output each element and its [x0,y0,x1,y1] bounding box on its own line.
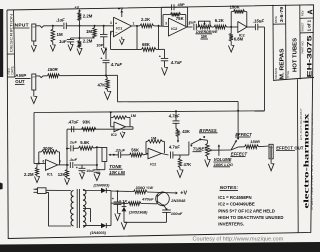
svg-text:DRAWN: DRAWN [274,68,278,78]
potentiometer VOLUME 100K LOG [206,143,210,156]
courtesy text [193,237,284,243]
svg-text:M. REPAS: M. REPAS [280,48,286,79]
svg-text:EFFECT OUT: EFFECT OUT [276,145,304,150]
label 47K second [184,162,192,167]
resistor R11 150K feedback [231,10,247,27]
resistor R21 150R output [245,145,259,149]
resistor R24 47K to ground [177,155,183,178]
label 6.8M [234,36,244,41]
wire bias line [71,37,95,39]
wire IC2d out [161,154,168,156]
svg-text:PINS 5+7 OF IC2 ARE HELD: PINS 5+7 OF IC2 ARE HELD [218,209,275,214]
svg-text:EFFECT: EFFECT [231,152,248,157]
resistor R4 1M bias [93,25,97,38]
title block title value HOT TUBES [293,38,299,72]
wire riser into IC2c [110,111,114,127]
label INPUT [13,23,30,29]
resistor R1 1M input pulldown [51,26,55,45]
label NOTES heading [220,185,239,191]
title block DATE label [274,16,278,23]
label 150R output [250,139,260,144]
resistor R5 2.2K [140,24,154,28]
svg-text:EFFECT: EFFECT [235,132,252,137]
svg-text:1M: 1M [86,29,92,34]
note line pins [218,209,275,214]
label 1M bias [86,29,92,34]
svg-text:OUT: OUT [15,79,25,84]
title block date box divider [273,23,286,25]
note line high [218,215,283,220]
svg-text:4.7uF: 4.7uF [170,60,182,65]
title block SHEET label [300,22,304,32]
wire IC1a output [132,25,141,27]
svg-text:electro-harmonix: electro-harmonix [303,113,311,209]
diode D2 1N4003 [101,223,111,228]
label IC2 third [111,133,117,137]
capacitor C12 tone to ground [94,170,101,181]
copyright small vertical text [301,107,303,140]
svg-text:(1N5236B): (1N5236B) [129,211,148,215]
diode D1 1N4003 [101,188,111,193]
switch S2 effect arm [231,138,239,151]
title block sheet value 1 of 1 [306,19,311,31]
svg-text:3: 3 [110,21,112,25]
wire plug to transformer bottom [46,193,71,226]
svg-text:BYPASS: BYPASS [199,128,216,133]
title block bottom line [273,77,314,80]
IC1a +V lead [120,10,123,17]
svg-text:DATE: DATE [274,16,278,23]
label EFFECT lower [230,152,247,157]
svg-text:HOT TUBES: HOT TUBES [293,38,299,72]
wire secondary bottom [83,225,101,227]
transformer T1 secondary [83,190,86,228]
label 68K [142,42,151,47]
transformer T1 core [77,189,79,228]
svg-text:+: + [115,22,117,26]
label VOLUME [213,157,231,162]
label EFFECT upper [235,132,252,137]
wire plug to transformer top [46,189,71,191]
svg-text:470uF: 470uF [141,196,154,201]
note line IC2 [218,202,255,207]
svg-text:Courtesy of http://www.muzique: Courtesy of http://www.muzique.com [193,237,284,243]
scan edge black mark left lower [0,183,3,190]
label IC2 inside [171,27,177,31]
ground below amp out jack [31,90,37,104]
diode D3 zener 1N5236B [122,203,127,222]
svg-text:1M: 1M [151,135,157,140]
svg-text:1M: 1M [57,32,63,37]
op-amp IC1a [114,17,132,37]
svg-text:2.2M: 2.2M [83,38,93,43]
scan edge black strip left [0,9,3,77]
title block drawn value M. REPAS [280,48,286,79]
wire to tone pot [97,146,102,148]
svg-text:2N3548: 2N3548 [170,198,186,203]
capacitor C10 .1uF series [67,162,97,168]
label IC1 inside [116,26,122,30]
label 1N5236B [129,211,148,215]
inverter IC2a [169,18,188,36]
svg-text:2.2M: 2.2M [24,172,34,177]
op-amp IC1b [46,160,58,171]
resistor R9 6.2K [212,25,238,29]
ground below effect out jack [268,159,274,171]
title block TITLE label [286,71,290,79]
ground below IC2c [120,132,125,138]
node bias dot [79,25,81,27]
capacitor C3 10P [100,25,108,54]
svg-text:+V: +V [180,190,187,196]
svg-text:(1N4003): (1N4003) [94,184,111,188]
svg-text:1M: 1M [201,34,207,39]
label 12K [58,172,66,177]
svg-text:TITLE: TITLE [286,71,290,79]
capacitor C18 4.7uF on 68K node [159,49,169,75]
wire IC2a out [187,26,193,28]
wire switch to 150R [231,147,245,150]
title block part value EH-3075 [307,34,313,77]
label 1M [57,32,63,37]
svg-text:12K: 12K [58,172,66,177]
svg-text:56K: 56K [131,148,139,153]
revision table DESCRIPTION label [9,13,13,52]
svg-text:A: A [308,9,315,14]
label BYPASS [199,128,218,133]
node input dot [52,25,54,27]
svg-text:.47uF: .47uF [68,119,79,124]
pin 1 label [133,21,135,25]
svg-text:150K: 150K [230,5,241,10]
capacitor C2 1uF bypass [67,38,74,51]
svg-text:EH-3075 REPRINT: EH-3075 REPRINT [301,107,303,140]
label 4.7uF first [110,62,123,67]
resistor R15 2.2M to ground [35,164,40,183]
switch contact arrow 43K [177,140,179,142]
svg-text:4.7uF: 4.7uF [168,144,180,149]
potentiometer TONE 10K LIN [102,148,107,162]
svg-text:7: 7 [59,160,61,164]
svg-text:47K: 47K [184,162,192,167]
label .15uF [253,19,265,24]
label .47uF [68,119,79,124]
svg-text:3-6-79: 3-6-79 [279,6,285,22]
svg-text:IC2: IC2 [239,33,245,37]
resistor R16 5.6K [73,146,97,150]
svg-text:1: 1 [133,21,135,25]
title block date value 3-6-79 [279,6,285,22]
note line IC1 [218,195,251,200]
capacitor C16 470uF filter [112,190,122,220]
wire to overdrive pot [196,26,198,28]
svg-text:2.2M: 2.2M [83,13,93,18]
resistor R17 12K to ground [65,165,70,185]
svg-text:6.2K: 6.2K [215,18,225,23]
resistor R7 150R [48,74,60,78]
label 4.7uF second [170,60,182,65]
wire long riser right [264,27,266,111]
resistor R22 330R half watt [134,190,148,194]
capacitor C7 .15uF series [255,24,264,30]
inverter IC2c [114,122,126,132]
label 93K [83,119,92,124]
svg-text:93K: 93K [83,119,92,124]
wire contact to volume [200,139,207,143]
label 4.7uF third [168,144,180,149]
label 4.7uF fourth [168,114,180,119]
wire pin2 feedback riser [111,31,142,49]
ground below input jack [31,41,36,52]
potentiometer OVERDRIVE 1M [199,21,212,29]
label IC1 second [47,173,53,177]
resistor R18 56K [130,153,149,157]
capacitor C5 45P label [178,2,185,7]
transformer T1 primary [71,191,74,227]
label +V at R2 [75,6,80,10]
svg-text:4.7uF: 4.7uF [110,62,123,67]
capacitor C9 1uF series [67,139,77,151]
wire emitter to C17 [164,206,167,210]
label 2.2K [141,17,151,22]
svg-text:300K: 300K [43,146,54,151]
resistor R3 2.2M to ground [77,26,82,55]
title block column lines [273,5,300,80]
label 47K [98,82,107,87]
svg-text:27 WEST 23RD STREET NEW YORK,: 27 WEST 23RD STREET NEW YORK, N.Y. 10010… [312,112,314,210]
title block rev value A [308,9,315,14]
label 5.6K [80,140,90,145]
AC plug [34,188,47,194]
wire rectifier junction [110,191,112,226]
resistor R14 300K feedback [39,150,60,165]
revision table REV DATE labels [7,66,14,74]
svg-text:1uF: 1uF [59,39,67,44]
svg-text:IC1 = RC4558PN: IC1 = RC4558PN [218,195,251,200]
wire riser to H1 [117,75,119,102]
svg-text:1 of 1: 1 of 1 [306,19,311,31]
wire H2 tap to 43K chain [175,110,177,121]
ground below volume [205,157,211,167]
wire input jack to node [36,26,63,28]
wire H2 [34,111,265,113]
wire corner riser to IC1b [33,113,35,164]
resistor R13 93K [82,127,97,131]
wire 2.2K node riser [136,26,138,49]
node tone top dot [96,146,98,148]
svg-text:OVERDRIVE: OVERDRIVE [196,30,218,34]
pin labels IC1b [43,159,62,164]
svg-text:2.2K: 2.2K [141,17,151,22]
volume wiper [209,149,231,151]
wire IC2c out [126,127,134,129]
svg-text:INVERTERS.: INVERTERS. [218,222,244,227]
label 10K LIN [109,170,126,175]
label EFFECT OUT [276,145,304,150]
tone pot wiper [108,154,115,156]
label 2.2M top [83,13,93,18]
node N3 dot [230,26,232,28]
capacitor C11 10uF electrolytic [76,165,96,179]
revision table column line [7,10,15,77]
electro-harmonix logotype [303,113,311,209]
svg-text:3: 3 [165,21,167,25]
label 6.2K [215,18,225,23]
resistor R6 68K feedback [142,26,159,52]
svg-text:.15uF: .15uF [253,19,265,24]
wire 150R to riser [60,75,118,77]
label 1M overdrive [201,34,209,39]
wire dc rail [111,190,134,193]
resistor R19 1M feedback [146,140,164,154]
note line inverters [218,222,244,227]
node bias line dot [79,37,81,39]
label 150K [230,5,241,10]
wire row2 [111,202,117,204]
svg-text:5.6K: 5.6K [80,140,90,145]
transistor Q1 2N3548 [156,192,170,206]
capacitor C13 .22uF series [118,152,129,158]
label 1uF [59,39,67,44]
label 1M IC2d [151,135,157,140]
resistor R8 47K to ground [104,76,111,100]
svg-text:.1uF: .1uF [56,17,65,22]
resistor R12 1M feedback box [111,116,130,127]
svg-text:IC1: IC1 [47,173,53,177]
svg-text:HIGH TO DEACTIVATE UNUSED: HIGH TO DEACTIVATE UNUSED [218,215,283,220]
label .22uF [115,148,126,153]
wire to effect out jack [259,145,270,148]
wire H1 [118,100,239,102]
svg-text:68K: 68K [142,42,151,47]
label 75K [176,16,185,21]
svg-text:EH-3075: EH-3075 [307,34,313,77]
ground below IC1a [120,37,125,45]
capacitor C14 4.7uF series [171,152,189,159]
wire IC2b out [247,26,255,28]
label IC2 second [239,33,245,37]
svg-text:AMP: AMP [15,73,26,78]
svg-text:IC2 = CD4049UBE: IC2 = CD4049UBE [218,202,255,207]
svg-text:PART NO.: PART NO. [300,40,304,53]
resistor R23 1.1K [117,202,157,206]
wire IC1b out [58,164,68,166]
resistor R10 6.8M to ground [228,27,234,52]
svg-text:75K: 75K [176,16,185,21]
label 470uF [141,196,154,201]
svg-text:DESCRIPTION: DESCRIPTION [9,13,13,52]
svg-text:IC2: IC2 [150,163,156,167]
svg-text:IC1: IC1 [116,26,122,30]
volume adjust arrow [218,144,220,156]
svg-text:IC2: IC2 [111,133,117,137]
title block DRAWN label [274,68,278,78]
label 43K [182,129,190,134]
svg-text:1M: 1M [131,114,136,118]
label TUBES [193,147,208,152]
ground below R1 [50,45,55,51]
svg-text:.1uF: .1uF [69,157,78,162]
capacitor C1 .1uF series [64,23,114,30]
op-amp plus minus [115,22,117,35]
label 300K [43,146,54,151]
capacitor C6 1uF series [189,20,197,31]
svg-text:10P: 10P [96,42,103,47]
wire jack to 150R [36,76,48,78]
switch riser to H lines [237,110,239,139]
wire into IC1b [34,163,46,165]
svg-text:150R: 150R [250,139,260,144]
title block REV label [300,10,304,16]
label 2.2M bottom [83,38,93,43]
svg-text:SHEET: SHEET [300,22,304,32]
svg-text:150R: 150R [48,67,59,72]
svg-text:10K LIN: 10K LIN [109,170,126,175]
svg-text:.22uF: .22uF [115,148,126,153]
label 100uF [171,211,183,216]
title block sheet dividers [300,18,314,33]
scan edge black strip bottom [0,242,320,252]
pin 3 IC2a [165,21,167,25]
label 1.1K [119,198,129,203]
label +V supply [180,190,187,196]
feedback loop cap row [161,4,187,27]
label TONE [109,164,123,169]
label 150R [48,67,59,72]
feedback loop resistor row [163,13,186,27]
pin 2 IC2a [189,22,191,26]
label 1M IC2c [131,114,136,118]
ground below zener [121,222,127,229]
capacitor C15 4.7uF shunt [173,121,180,129]
jack J2 amp out [32,74,36,90]
title block PART NO label [300,40,304,53]
svg-text:4.7uF: 4.7uF [168,114,180,119]
pin 2 label [110,32,112,36]
switch S1 tubes arm [190,136,205,147]
svg-text:REV: REV [300,10,304,16]
resistor R20 43K [176,129,180,141]
svg-text:1uF: 1uF [189,20,197,25]
wire secondary center tap [83,209,91,223]
svg-text:330Ω ½W: 330Ω ½W [136,185,154,190]
jack J3 effect out [269,144,273,159]
wire ground rail [124,221,167,223]
wire to IC2a [154,25,169,27]
svg-text:47K: 47K [98,82,107,87]
label +V IC1a [118,6,123,11]
pin 3 label [110,21,112,25]
wire pot bottom [97,162,105,170]
svg-text:43K: 43K [182,129,190,134]
label .1uF second [69,157,78,162]
wire wiper to .22uF [114,154,119,156]
svg-text:100K LOG: 100K LOG [214,162,233,167]
wire H1-H2 jog [237,101,239,111]
capacitor C17 100uF [162,210,171,222]
electro-harmonix strip divider [296,79,299,232]
svg-text:IC2: IC2 [171,27,177,31]
label 2N3548 [170,198,186,203]
jack J1 input [32,24,36,41]
wire riser to tubes contact [188,142,190,156]
wire tone node down [96,147,98,169]
svg-text:+V: +V [118,6,123,11]
wire row y129 [67,128,133,130]
label 56K [131,148,139,153]
electro-harmonix address small print [312,112,314,210]
resistor R2 2.2M to +V [78,9,82,26]
